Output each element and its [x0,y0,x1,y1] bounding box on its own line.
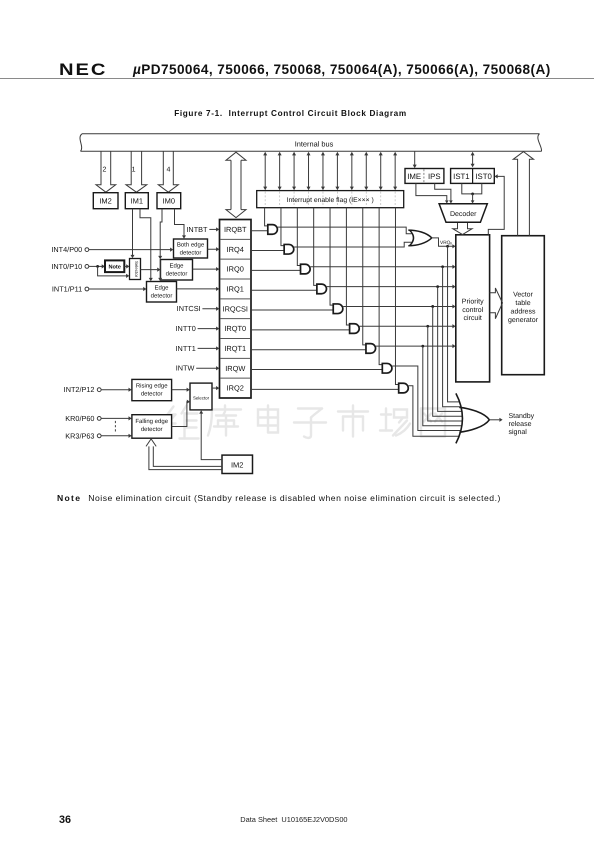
svg-text:IM0: IM0 [163,197,176,206]
svg-text:IRQCSI: IRQCSI [223,304,248,313]
svg-text:detector: detector [151,292,173,299]
svg-text:Selector: Selector [193,395,210,400]
svg-text:IRQ1: IRQ1 [227,285,244,294]
svg-text:2: 2 [102,167,106,174]
svg-text:Rising edge: Rising edge [136,382,168,389]
svg-text:IM2: IM2 [99,197,112,206]
svg-text:detector: detector [141,390,163,397]
svg-text:Selector: Selector [134,261,139,278]
svg-text:IRQ0: IRQ0 [227,265,244,274]
svg-text:IRQT0: IRQT0 [224,324,246,333]
svg-text:1: 1 [132,167,136,174]
svg-text:release: release [509,420,532,428]
svg-text:detector: detector [180,250,202,257]
svg-text:INTW: INTW [176,364,195,373]
svg-text:circuit: circuit [464,314,482,322]
svg-text:KR0/P60: KR0/P60 [65,414,94,423]
svg-text:Standby: Standby [509,412,535,420]
svg-text:IM1: IM1 [131,197,144,206]
svg-text:Vector: Vector [513,292,534,299]
svg-text:INT0/P10: INT0/P10 [51,262,82,271]
svg-text:Internal bus: Internal bus [295,140,334,149]
svg-text:IRQ4: IRQ4 [227,245,244,254]
svg-text:control: control [462,306,483,314]
svg-text:IRQBT: IRQBT [224,225,247,234]
svg-text:INTT0: INTT0 [176,324,196,333]
svg-text:Decoder: Decoder [450,210,477,218]
svg-text:IST0: IST0 [475,172,492,181]
svg-text:IRQW: IRQW [225,364,245,373]
svg-text:INT4/P00: INT4/P00 [51,245,82,254]
svg-text:Priority: Priority [462,298,484,306]
svg-text:Note: Note [108,265,120,271]
svg-text:Interrupt enable flag (IE××× ): Interrupt enable flag (IE××× ) [287,197,374,204]
svg-text:IRQ2: IRQ2 [227,384,244,393]
svg-text:generator: generator [508,317,539,324]
svg-text:Falling edge: Falling edge [135,418,168,425]
svg-text:INT2/P12: INT2/P12 [64,385,95,394]
svg-text:Edge: Edge [154,284,169,291]
svg-text:INT1/P11: INT1/P11 [52,285,82,294]
svg-text:Edge: Edge [169,262,184,269]
svg-text:address: address [511,308,536,316]
svg-text:IPS: IPS [428,172,441,181]
svg-text:Both edge: Both edge [177,242,205,249]
svg-text:INTCSI: INTCSI [177,304,201,313]
svg-text:n: n [450,242,452,246]
svg-text:signal: signal [509,428,528,436]
svg-text:INTT1: INTT1 [176,344,196,353]
svg-text:table: table [515,299,530,307]
svg-text:4: 4 [167,167,171,174]
svg-text:IM2: IM2 [231,460,244,469]
svg-text:IST1: IST1 [453,172,469,181]
svg-text:IME: IME [407,172,421,181]
svg-text:detector: detector [166,270,188,277]
svg-text:INTBT: INTBT [186,225,208,234]
svg-text:IRQT1: IRQT1 [224,344,246,353]
svg-text:detector: detector [141,426,163,433]
svg-text:KR3/P63: KR3/P63 [65,431,94,440]
